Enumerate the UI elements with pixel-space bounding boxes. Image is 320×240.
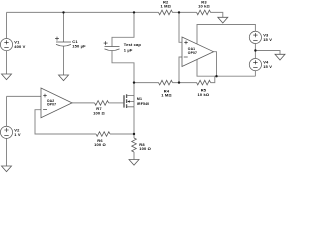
wire V4 bottom — [254, 71, 256, 77]
wire test cap bottom bracket to M1 drain — [112, 51, 134, 96]
wire OA1 V- pin line to V4 bottom — [197, 60, 255, 77]
ground below C1 — [59, 75, 69, 81]
node M1 source junction — [133, 133, 135, 135]
svg-text:15 V: 15 V — [263, 37, 272, 42]
op-amp OA2 OP07 — [41, 88, 72, 118]
wire V2 to OA2 + — [7, 95, 42, 97]
wire test cap top bracket — [112, 12, 134, 46]
capacitor Test cap 1 uF — [104, 41, 142, 53]
wire V2 to ground — [6, 138, 8, 166]
svg-text:100 Ω: 100 Ω — [94, 142, 106, 147]
transistor M1 IRF540 — [124, 94, 149, 108]
node supply mid junction — [254, 49, 256, 51]
resistor R2 1 Mohm — [159, 0, 173, 15]
wire V1 top — [6, 12, 8, 38]
wire drain tap to R4 — [134, 82, 159, 84]
wire node B riser to OA1 - — [179, 57, 182, 83]
svg-text:1 V: 1 V — [14, 132, 21, 137]
svg-text:100 Ω: 100 Ω — [93, 111, 105, 116]
node B junction — [178, 81, 180, 83]
voltage source V1 400 V — [0, 39, 25, 51]
wire V1 to ground — [6, 51, 8, 74]
svg-text:IRF540: IRF540 — [137, 102, 149, 106]
svg-text:1 µF: 1 µF — [124, 48, 133, 53]
wire OA1 output stub down — [214, 52, 217, 76]
wire C1 top — [63, 12, 65, 42]
ground below V1 — [2, 74, 12, 80]
ground after R3 — [218, 17, 228, 23]
capacitor C1 150 uF — [55, 37, 86, 49]
svg-text:OP07: OP07 — [47, 103, 56, 107]
wire R7 to M1 gate — [109, 102, 124, 104]
svg-text:OP07: OP07 — [188, 51, 197, 55]
svg-text:100 Ω: 100 Ω — [139, 146, 151, 151]
wire V3 to V4 — [254, 44, 256, 59]
wire C1 to ground — [63, 46, 65, 75]
voltage source V4 15 V — [249, 59, 272, 71]
node C1 tap junction — [62, 11, 64, 13]
svg-text:10 kΩ: 10 kΩ — [198, 4, 210, 9]
resistor R4 1 Mohm — [159, 80, 173, 97]
wire M1 source down to R8 — [133, 107, 135, 138]
op-amp OA1 OP07 — [182, 37, 214, 67]
svg-text:1 MΩ: 1 MΩ — [161, 93, 172, 98]
wire between R2 and R3 — [173, 11, 197, 13]
svg-text:1 MΩ: 1 MΩ — [160, 4, 171, 9]
node drain tap junction — [133, 81, 135, 83]
svg-text:400 V: 400 V — [14, 44, 25, 49]
wire R5 hook up to output line — [211, 76, 215, 82]
svg-text:10 kΩ: 10 kΩ — [198, 92, 210, 97]
ground right of supplies — [275, 54, 285, 60]
svg-text:150 µF: 150 µF — [72, 44, 86, 49]
node test-cap tap junction — [133, 11, 135, 13]
wire V2 riser — [6, 96, 8, 126]
wire R4 - nodeB - R5 — [173, 82, 197, 84]
resistor R6 100 ohm — [94, 132, 110, 148]
wire OA1 V+ pin to V3 — [197, 25, 255, 45]
voltage source V2 1 V — [0, 126, 21, 138]
svg-text:M1: M1 — [137, 97, 142, 101]
wire top rail left — [7, 11, 159, 13]
node A junction — [178, 11, 180, 13]
wire OA2 - feedback down to R6 — [35, 110, 96, 134]
wire OA2 out to R7 — [72, 102, 95, 104]
wire R8 to ground — [133, 152, 135, 160]
ground below V2 — [2, 166, 12, 172]
voltage source V3 15 V — [249, 31, 272, 43]
wire supply midpoint to ground — [255, 51, 280, 55]
resistor R3 10 kohm — [197, 0, 211, 15]
svg-text:Test cap: Test cap — [124, 42, 142, 47]
resistor R5 10 kohm — [197, 80, 211, 97]
resistor R8 100 ohm — [132, 138, 152, 152]
wire node A riser to OA1 + — [179, 12, 182, 42]
ground below R8 — [129, 160, 139, 166]
wire R3 to ground stem — [211, 12, 223, 17]
node OA1 output junction — [215, 75, 217, 77]
resistor R7 100 ohm — [93, 101, 108, 116]
svg-text:15 V: 15 V — [263, 64, 272, 69]
wire R6 to source node — [110, 133, 134, 135]
